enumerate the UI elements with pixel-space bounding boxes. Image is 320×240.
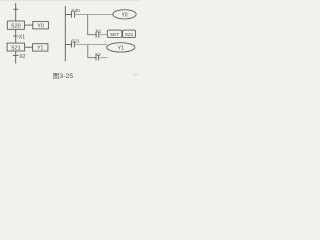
svg-text:SET: SET [110,32,119,38]
svg-text:Y1: Y1 [118,46,124,52]
svg-text:S21: S21 [11,46,21,52]
wire: contact S21 to coil Y1 [74,44,106,46]
svg-text:S21: S21 [71,39,80,45]
svg-text:X2: X2 [95,52,101,58]
contact X1 [95,28,101,37]
wire: S21 down exit [15,51,17,64]
transition bar (initial) [13,8,18,10]
wire: rung1 rail to contact S20 [65,14,71,16]
svg-text:X1: X1 [95,28,101,34]
wire: SFC top entry vertical [15,3,17,21]
wire: branch down from rung1 [88,15,96,35]
wire: contact X1 to SET box [99,34,108,36]
coil Y0 [113,10,136,19]
contact S21 [71,39,80,48]
wire: stub after contact X2 [98,57,107,59]
wire: branch down from rung2 [88,45,96,58]
instruction operand S21 [123,30,136,38]
wire: S21 to action Y1 [25,46,33,48]
svg-text:X2: X2 [19,54,25,60]
scan edge [0,0,141,1]
svg-text:Y1: Y1 [37,46,43,52]
step S21 [7,43,25,51]
wire: S20 to action Y0 [24,24,32,26]
action box Y1 [33,44,48,52]
scan smudge [133,73,139,76]
svg-text:S20: S20 [11,24,21,30]
contact X2 [95,52,101,61]
contact S20 [71,8,80,18]
coil Y1 [107,43,135,52]
instruction box SET [107,30,122,38]
transition bar X1 [13,35,18,37]
transition bar X2 [13,54,19,56]
svg-text:图3-25: 图3-25 [53,72,74,80]
wire: rung2 rail to contact S21 [65,44,71,46]
svg-text:S20: S20 [71,8,80,14]
svg-text:X1: X1 [19,34,25,40]
svg-text:Y0: Y0 [37,23,43,29]
left power rail [64,6,66,61]
wire: contact S20 to coil Y0 [75,14,113,16]
wire: S20 down to S21 [15,29,17,43]
svg-text:S21: S21 [125,32,134,38]
step S20 [7,21,24,30]
svg-text:Y0: Y0 [121,12,127,18]
action box Y0 [33,22,49,30]
